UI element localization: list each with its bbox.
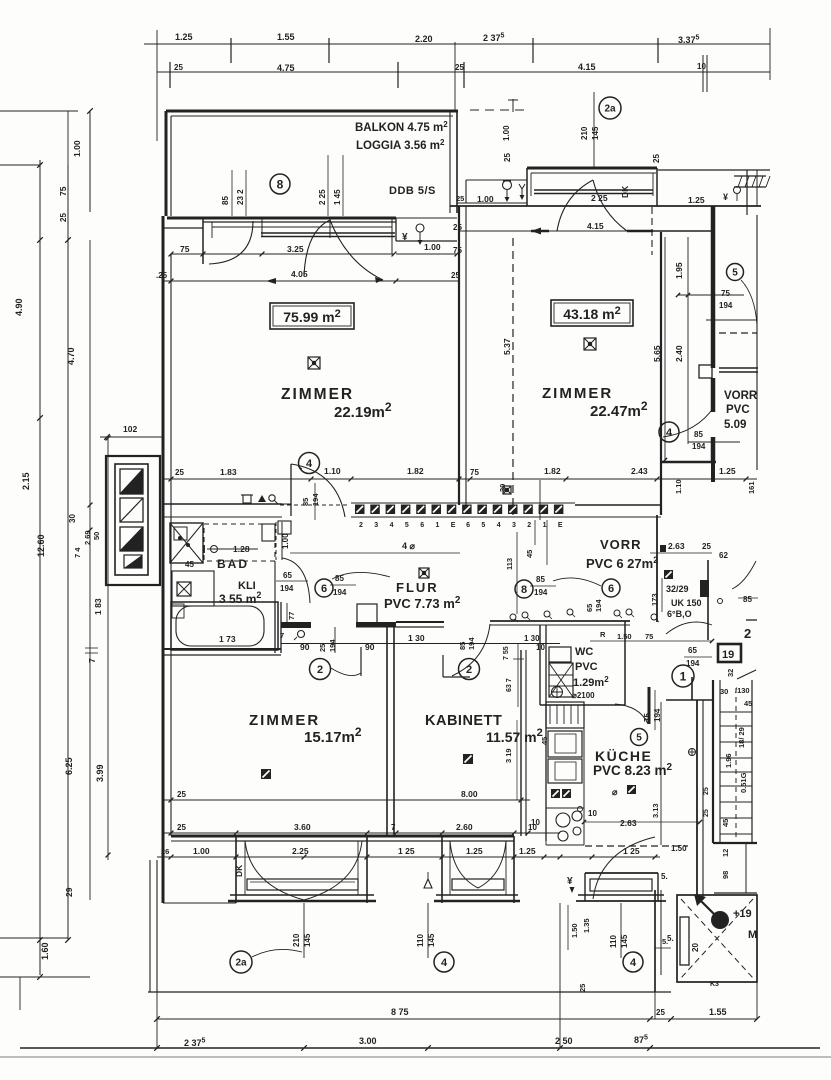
svg-text:75: 75 bbox=[58, 186, 68, 196]
svg-text:1: 1 bbox=[680, 669, 687, 683]
svg-text:25: 25 bbox=[702, 542, 711, 551]
svg-text:¥: ¥ bbox=[567, 876, 573, 887]
svg-text:1 30: 1 30 bbox=[524, 634, 540, 643]
svg-text:DK: DK bbox=[234, 864, 244, 877]
svg-text:ZIMMER: ZIMMER bbox=[542, 385, 613, 402]
svg-text:3: 3 bbox=[374, 522, 378, 529]
svg-text:77: 77 bbox=[287, 612, 296, 620]
svg-text:194: 194 bbox=[311, 493, 320, 506]
svg-text:1 25: 1 25 bbox=[623, 846, 640, 856]
svg-text:90: 90 bbox=[365, 642, 375, 652]
svg-text:25: 25 bbox=[177, 823, 186, 832]
svg-text:25: 25 bbox=[578, 984, 587, 992]
svg-text:5: 5 bbox=[405, 522, 409, 529]
svg-text:145: 145 bbox=[591, 126, 600, 140]
svg-text:30: 30 bbox=[498, 484, 507, 492]
svg-text:1.55: 1.55 bbox=[709, 1007, 727, 1017]
svg-text:1.29m2: 1.29m2 bbox=[573, 675, 609, 689]
svg-text:90: 90 bbox=[300, 642, 310, 652]
svg-text:1.00: 1.00 bbox=[193, 846, 210, 856]
svg-text:4.15: 4.15 bbox=[587, 221, 604, 231]
svg-text:1 30: 1 30 bbox=[408, 633, 425, 643]
svg-text:75: 75 bbox=[721, 289, 730, 298]
svg-text:KÜCHE: KÜCHE bbox=[595, 748, 652, 764]
svg-text:DDB 5/S: DDB 5/S bbox=[389, 185, 436, 197]
svg-text:BALKON 4.75 m2: BALKON 4.75 m2 bbox=[355, 120, 448, 134]
svg-text:3.13: 3.13 bbox=[651, 803, 660, 818]
svg-text:2.15: 2.15 bbox=[21, 472, 31, 490]
svg-text:25: 25 bbox=[455, 63, 464, 72]
svg-text:10: 10 bbox=[588, 809, 597, 818]
svg-text:E: E bbox=[451, 522, 456, 529]
svg-text:45: 45 bbox=[540, 737, 549, 745]
svg-text:5.: 5. bbox=[661, 872, 668, 881]
svg-text:1.25: 1.25 bbox=[719, 466, 736, 476]
svg-text:WC: WC bbox=[575, 646, 593, 658]
svg-text:32/29: 32/29 bbox=[666, 584, 689, 594]
svg-text:4: 4 bbox=[306, 458, 313, 470]
svg-text:145: 145 bbox=[427, 933, 436, 947]
svg-text:161: 161 bbox=[747, 481, 756, 494]
svg-text:7: 7 bbox=[391, 823, 396, 832]
svg-text:3: 3 bbox=[512, 522, 516, 529]
svg-text:75: 75 bbox=[453, 246, 462, 255]
svg-text:2: 2 bbox=[317, 664, 323, 676]
svg-text:25: 25 bbox=[456, 194, 464, 203]
svg-text:2a: 2a bbox=[235, 958, 247, 969]
svg-text:3 19: 3 19 bbox=[504, 748, 513, 763]
svg-text:194: 194 bbox=[534, 588, 548, 597]
svg-text:R: R bbox=[600, 630, 606, 639]
svg-text:65: 65 bbox=[585, 604, 594, 612]
svg-text:M: M bbox=[748, 929, 757, 941]
svg-text:2 50: 2 50 bbox=[555, 1036, 573, 1046]
svg-text:1 73: 1 73 bbox=[219, 634, 236, 644]
svg-text:25: 25 bbox=[703, 809, 710, 817]
svg-text:85: 85 bbox=[458, 642, 467, 650]
svg-text:194: 194 bbox=[333, 588, 347, 597]
svg-text:43.18 m2: 43.18 m2 bbox=[563, 305, 621, 322]
svg-text:45: 45 bbox=[721, 819, 730, 827]
svg-text:1 45: 1 45 bbox=[333, 189, 342, 205]
svg-text:2.43: 2.43 bbox=[631, 466, 648, 476]
svg-text:194: 194 bbox=[594, 599, 603, 612]
svg-text:5.37: 5.37 bbox=[502, 338, 512, 355]
svg-text:7: 7 bbox=[87, 658, 97, 663]
svg-text:6: 6 bbox=[466, 522, 470, 529]
svg-text:0.51G: 0.51G bbox=[739, 772, 748, 793]
svg-text:2: 2 bbox=[744, 626, 751, 641]
svg-text:7 4: 7 4 bbox=[73, 547, 82, 558]
svg-text:2.25: 2.25 bbox=[292, 846, 309, 856]
svg-text:145: 145 bbox=[620, 934, 629, 948]
svg-text:98: 98 bbox=[721, 871, 730, 879]
svg-text:4.05: 4.05 bbox=[291, 269, 308, 279]
svg-text:45: 45 bbox=[525, 550, 534, 558]
svg-text:8: 8 bbox=[521, 584, 527, 596]
svg-text:2.63: 2.63 bbox=[668, 541, 685, 551]
svg-text:3.60: 3.60 bbox=[294, 822, 311, 832]
svg-text:12.60: 12.60 bbox=[36, 534, 46, 557]
svg-text:30: 30 bbox=[68, 514, 77, 523]
svg-text:4: 4 bbox=[441, 957, 448, 969]
svg-text:3.99: 3.99 bbox=[95, 764, 105, 782]
svg-text:6: 6 bbox=[608, 583, 614, 595]
svg-text:1.10: 1.10 bbox=[324, 466, 341, 476]
svg-text:1: 1 bbox=[436, 522, 440, 529]
svg-text:10: 10 bbox=[697, 62, 706, 71]
svg-text:PVC 7.73 m2: PVC 7.73 m2 bbox=[384, 595, 461, 611]
svg-text:25: 25 bbox=[703, 787, 710, 795]
svg-text:6: 6 bbox=[420, 522, 424, 529]
svg-text:+19: +19 bbox=[733, 908, 752, 920]
svg-text:2.40: 2.40 bbox=[674, 345, 684, 362]
svg-text:25: 25 bbox=[177, 790, 186, 799]
svg-text:⌀: ⌀ bbox=[612, 787, 618, 797]
svg-text:1.55: 1.55 bbox=[277, 32, 295, 42]
svg-text:110: 110 bbox=[416, 934, 425, 947]
svg-text:85: 85 bbox=[536, 575, 545, 584]
svg-text:/130: /130 bbox=[735, 686, 750, 695]
svg-text:4.75: 4.75 bbox=[277, 63, 295, 73]
svg-text:E: E bbox=[558, 522, 563, 529]
svg-text:2.60: 2.60 bbox=[456, 822, 473, 832]
svg-text:63 7: 63 7 bbox=[506, 678, 513, 692]
svg-text:85: 85 bbox=[694, 430, 703, 439]
svg-text:18/ 29: 18/ 29 bbox=[737, 727, 746, 748]
svg-text:7: 7 bbox=[280, 631, 284, 640]
svg-text:5.09: 5.09 bbox=[724, 419, 746, 431]
svg-text:5.: 5. bbox=[662, 937, 668, 946]
svg-text:¥: ¥ bbox=[723, 192, 728, 202]
svg-text:5: 5 bbox=[732, 268, 738, 279]
svg-text:4: 4 bbox=[390, 522, 394, 529]
svg-text:LOGGIA 3.56 m2: LOGGIA 3.56 m2 bbox=[356, 138, 445, 152]
svg-text:2.20: 2.20 bbox=[415, 34, 433, 44]
svg-text:62: 62 bbox=[719, 551, 728, 560]
svg-text:23 2: 23 2 bbox=[236, 189, 245, 205]
svg-text:¥: ¥ bbox=[402, 232, 408, 243]
svg-text:210: 210 bbox=[292, 933, 301, 947]
svg-text:KLI: KLI bbox=[238, 580, 256, 592]
svg-text:2: 2 bbox=[359, 522, 363, 529]
svg-text:5: 5 bbox=[636, 733, 642, 744]
svg-text:194: 194 bbox=[328, 639, 337, 652]
svg-text:1 25: 1 25 bbox=[398, 846, 415, 856]
svg-text:1.00: 1.00 bbox=[502, 125, 511, 141]
svg-text:25: 25 bbox=[174, 63, 183, 72]
svg-text:K3: K3 bbox=[710, 981, 719, 988]
svg-text:2: 2 bbox=[527, 522, 531, 529]
svg-text:65: 65 bbox=[688, 646, 697, 655]
svg-text:5: 5 bbox=[481, 522, 485, 529]
svg-text:6.25: 6.25 bbox=[64, 757, 74, 775]
svg-text:2 25: 2 25 bbox=[318, 189, 327, 205]
svg-text:UK 150: UK 150 bbox=[671, 598, 702, 608]
svg-text:BAD: BAD bbox=[217, 557, 249, 571]
svg-text:15.17m2: 15.17m2 bbox=[304, 725, 362, 746]
svg-text:FLUR: FLUR bbox=[396, 580, 439, 595]
svg-text:1.83: 1.83 bbox=[220, 467, 237, 477]
svg-text:4.90: 4.90 bbox=[14, 298, 24, 316]
svg-text:1.82: 1.82 bbox=[407, 466, 424, 476]
svg-text:22.47m2: 22.47m2 bbox=[590, 399, 648, 420]
svg-text:20: 20 bbox=[691, 943, 700, 952]
svg-text:VORR: VORR bbox=[724, 390, 758, 402]
svg-text:145: 145 bbox=[303, 933, 312, 947]
svg-text:1.00: 1.00 bbox=[424, 242, 441, 252]
svg-text:50: 50 bbox=[92, 532, 101, 540]
svg-text:3 55 m2: 3 55 m2 bbox=[219, 590, 261, 606]
svg-text:4: 4 bbox=[497, 522, 501, 529]
svg-text:4.15: 4.15 bbox=[578, 62, 596, 72]
svg-text:11.57 m2: 11.57 m2 bbox=[486, 727, 543, 745]
svg-text:1.00: 1.00 bbox=[477, 194, 494, 204]
svg-text:26: 26 bbox=[161, 847, 169, 856]
svg-text:1 83: 1 83 bbox=[93, 598, 103, 615]
svg-text:4 ⌀: 4 ⌀ bbox=[402, 541, 416, 551]
svg-text:25: 25 bbox=[318, 644, 327, 652]
svg-text:75: 75 bbox=[470, 468, 479, 477]
svg-text:2a: 2a bbox=[604, 104, 616, 115]
svg-text:PVC 6 27m2: PVC 6 27m2 bbox=[586, 555, 658, 571]
svg-text:8 75: 8 75 bbox=[391, 1007, 409, 1017]
svg-text:75.99 m2: 75.99 m2 bbox=[283, 308, 341, 325]
svg-text:110: 110 bbox=[609, 935, 618, 948]
svg-text:75: 75 bbox=[645, 632, 653, 641]
svg-text:10: 10 bbox=[536, 643, 545, 652]
svg-text:ZIMMER: ZIMMER bbox=[249, 712, 320, 729]
svg-text:10: 10 bbox=[531, 818, 540, 827]
svg-text:75: 75 bbox=[180, 244, 190, 254]
svg-text:PVC: PVC bbox=[726, 404, 750, 416]
svg-text:194: 194 bbox=[280, 584, 294, 593]
svg-text:12: 12 bbox=[721, 849, 730, 857]
svg-text:1.82: 1.82 bbox=[544, 466, 561, 476]
svg-text:1.95: 1.95 bbox=[674, 262, 684, 279]
svg-text:2.63: 2.63 bbox=[620, 818, 637, 828]
svg-text:19: 19 bbox=[722, 649, 734, 661]
svg-text:1: 1 bbox=[543, 522, 547, 529]
svg-text:25: 25 bbox=[175, 468, 184, 477]
svg-text:1.96: 1.96 bbox=[724, 753, 733, 768]
svg-text:6°B,O: 6°B,O bbox=[667, 609, 692, 619]
svg-text:1.00: 1.00 bbox=[72, 140, 82, 157]
svg-text:102: 102 bbox=[123, 424, 137, 434]
svg-text:⌀2100: ⌀2100 bbox=[572, 691, 595, 700]
svg-text:25: 25 bbox=[656, 1008, 665, 1017]
svg-text:30: 30 bbox=[720, 687, 728, 696]
svg-text:65: 65 bbox=[283, 571, 292, 580]
svg-text:3.00: 3.00 bbox=[359, 1036, 377, 1046]
svg-text:1.10: 1.10 bbox=[674, 479, 683, 494]
svg-text:PVC: PVC bbox=[575, 661, 598, 673]
svg-text:KABINETT: KABINETT bbox=[425, 713, 502, 729]
svg-text:6: 6 bbox=[321, 583, 327, 595]
svg-text:29: 29 bbox=[64, 887, 74, 897]
svg-text:1.25: 1.25 bbox=[466, 846, 483, 856]
svg-text:4: 4 bbox=[630, 957, 637, 969]
svg-text:3.25: 3.25 bbox=[287, 244, 304, 254]
svg-text:1.35: 1.35 bbox=[582, 918, 591, 933]
svg-text:1.25: 1.25 bbox=[519, 846, 536, 856]
svg-text:45: 45 bbox=[185, 560, 194, 569]
svg-text:2 69: 2 69 bbox=[83, 530, 92, 545]
svg-text:85: 85 bbox=[743, 595, 752, 604]
svg-text:2: 2 bbox=[466, 664, 472, 676]
svg-text:32: 32 bbox=[726, 669, 735, 677]
svg-text:194: 194 bbox=[686, 659, 700, 668]
svg-text:1.60: 1.60 bbox=[40, 942, 50, 960]
svg-text:ZIMMER: ZIMMER bbox=[281, 386, 354, 403]
svg-text:113: 113 bbox=[505, 558, 514, 570]
svg-text:8: 8 bbox=[277, 177, 284, 191]
svg-text:1.25: 1.25 bbox=[175, 32, 193, 42]
svg-text:1.50: 1.50 bbox=[671, 844, 687, 853]
svg-text:194: 194 bbox=[719, 301, 733, 310]
svg-text:25: 25 bbox=[59, 213, 68, 222]
svg-text:4: 4 bbox=[666, 427, 673, 439]
svg-text:1.25: 1.25 bbox=[688, 195, 705, 205]
svg-text:22.19m2: 22.19m2 bbox=[334, 400, 392, 421]
svg-text:VORR: VORR bbox=[600, 537, 642, 552]
svg-text:45: 45 bbox=[744, 699, 752, 708]
svg-text:210: 210 bbox=[580, 126, 589, 140]
svg-text:194: 194 bbox=[692, 442, 706, 451]
svg-text:1.50: 1.50 bbox=[570, 923, 579, 938]
svg-text:DK: DK bbox=[620, 185, 630, 198]
svg-text:85: 85 bbox=[221, 196, 230, 205]
svg-text:7 55: 7 55 bbox=[503, 646, 510, 660]
svg-text:25: 25 bbox=[503, 153, 512, 162]
svg-text:194: 194 bbox=[467, 637, 476, 650]
svg-text:8.00: 8.00 bbox=[461, 789, 478, 799]
svg-text:25: 25 bbox=[652, 154, 661, 163]
